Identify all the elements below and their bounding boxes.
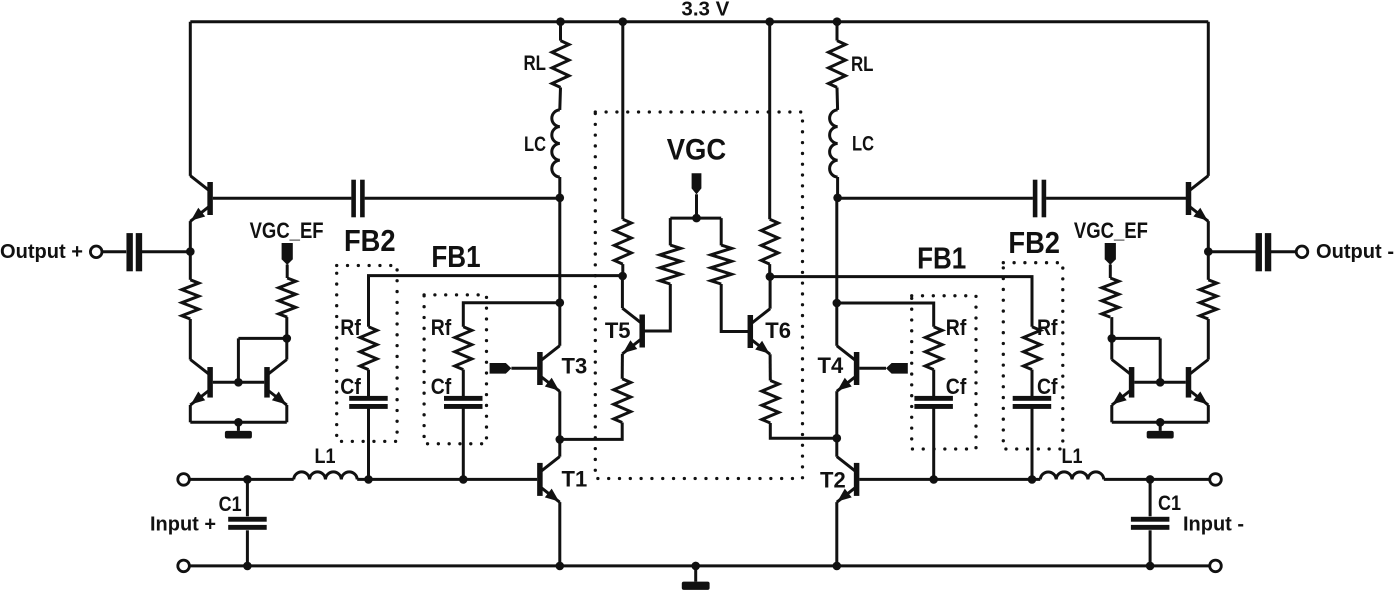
capacitor Cf FB1 left	[444, 396, 483, 409]
svg-text:VGC: VGC	[667, 134, 727, 167]
wire divider left to T5 base	[644, 284, 670, 331]
wire Q10 emitter down	[1207, 221, 1210, 252]
label Cf FB2 right	[1037, 374, 1058, 399]
node rail-RL-right	[833, 17, 842, 26]
resistor Rf FB2 left	[360, 327, 377, 370]
svg-text:VGC_EF: VGC_EF	[250, 218, 324, 243]
resistor Rf FB1 right	[925, 327, 942, 370]
wire VGC_EF pin to resistor	[286, 265, 289, 279]
node output+ junction	[186, 247, 195, 256]
wire Q9 emitter down	[285, 405, 288, 422]
node Q9 collector-base tie	[283, 334, 292, 343]
svg-text:FB2: FB2	[344, 223, 396, 258]
wire rail to T5 branch resistor	[621, 22, 624, 220]
label FB2 left	[344, 223, 396, 258]
resistor VGC divider left	[660, 245, 681, 284]
node C1 top left	[243, 475, 252, 484]
wire T5 emitter resistor to T3 node	[560, 423, 622, 440]
wire node to L1	[247, 478, 293, 481]
wire main column left upper	[558, 198, 561, 303]
inductor LC right	[830, 110, 838, 177]
resistor RL right	[829, 41, 846, 88]
svg-text:FB1: FB1	[431, 239, 480, 274]
wire FB1 feedback line left	[463, 303, 560, 327]
resistor Rf FB1 left	[455, 327, 472, 370]
svg-text:Cf: Cf	[1037, 374, 1058, 399]
node rail-RL-left	[556, 17, 565, 26]
wire T4 emitter down	[835, 391, 838, 438]
wire C1 top lead left	[246, 479, 249, 516]
svg-text:LC: LC	[852, 133, 874, 156]
node Q12 collector-base tie	[1108, 334, 1117, 343]
inductor L1 left	[294, 472, 358, 480]
wire divider left drop	[669, 218, 672, 245]
label T2	[820, 467, 846, 492]
wire Cf FB2 to input line left	[367, 409, 370, 480]
label T4	[818, 353, 844, 378]
svg-text:FB2: FB2	[1008, 225, 1060, 260]
wire Rf to Cf FB2 left	[367, 370, 370, 397]
wire Q11-Q12 base link	[1134, 381, 1186, 384]
node T6 collector / feedback tap	[766, 272, 775, 281]
label VGC_EF left	[250, 218, 324, 243]
node mirror emitter center	[234, 418, 243, 427]
node mirror emitter center right	[1156, 418, 1165, 427]
wire base node to Q9 collector	[238, 337, 286, 340]
svg-text:3.3 V: 3.3 V	[681, 0, 730, 20]
transistor T2 input device right	[837, 457, 860, 503]
svg-text:C1: C1	[219, 493, 242, 516]
svg-text:Rf: Rf	[431, 315, 452, 340]
label Input - right	[1183, 514, 1244, 536]
pin VGC_EF supply pin left	[282, 243, 293, 265]
wire Q11 emitter down	[1207, 405, 1210, 422]
resistor VGC_EF bias right	[1102, 278, 1119, 317]
capacitor C1 right	[1131, 517, 1170, 530]
transistor Q10 output emitter-follower right	[1186, 176, 1209, 222]
wire mirror emitters right	[1112, 421, 1209, 424]
wire resistor to T6 node	[768, 264, 771, 277]
wire resistor to Q9 node	[285, 317, 288, 338]
svg-text:T3: T3	[562, 354, 588, 379]
label Rf FB1 right	[946, 315, 967, 340]
wire LC to node	[558, 177, 561, 198]
wire T2 base to L1 right	[859, 478, 1040, 481]
wire FB2 feedback line left	[369, 276, 623, 327]
resistor T5 collector load	[614, 219, 631, 264]
wire Q7 collector to rail	[189, 22, 192, 176]
wire Output+ terminal to cap	[102, 250, 126, 253]
wire coupling cap to LC node	[365, 197, 560, 200]
label L1 right	[1062, 445, 1083, 468]
node FB2 tap on input line right	[1028, 475, 1037, 484]
svg-text:Output -: Output -	[1316, 241, 1394, 263]
wire Q9 collector	[285, 338, 288, 359]
inductor L1 right	[1040, 472, 1104, 480]
wire Q8 emitter down	[189, 405, 192, 422]
svg-text:LC: LC	[524, 133, 546, 156]
pin VGC control pin	[692, 173, 702, 194]
wire mirror emitters	[190, 421, 286, 424]
svg-text:C1: C1	[1158, 492, 1181, 515]
capacitor coupling cap left (base)	[351, 180, 364, 218]
wire output cap to node	[141, 250, 191, 253]
svg-text:L1: L1	[315, 445, 336, 468]
wire divider right drop	[720, 218, 723, 245]
svg-text:T5: T5	[605, 318, 631, 343]
wire VGC divider bar	[670, 217, 721, 220]
wire resistor to Q12 node	[1110, 317, 1113, 338]
svg-text:Input -: Input -	[1183, 514, 1244, 536]
transistor T4 cascode right	[837, 346, 860, 392]
wire T5 emitter to resistor	[621, 354, 624, 379]
wire output cap to terminal right	[1270, 250, 1296, 253]
wire T4 base	[859, 367, 886, 370]
capacitor Cf FB2 right	[1013, 396, 1051, 409]
label Cf FB1 left	[431, 374, 452, 399]
transistor T5 gain-control left	[622, 308, 645, 354]
resistor VGC_EF bias left	[279, 278, 296, 317]
resistor T6 emitter degeneration	[762, 381, 779, 424]
node T4-T2 junction right	[833, 434, 842, 443]
wire VGC_EF pin to resistor right	[1109, 265, 1112, 279]
label FB2 right	[1008, 225, 1060, 260]
node ground junction	[691, 562, 700, 571]
wire base node up right	[1159, 338, 1162, 382]
resistor output load right	[1200, 280, 1217, 319]
label C1 left	[219, 493, 242, 516]
box VGC dotted control block	[595, 112, 802, 479]
ground main ground	[682, 566, 710, 590]
svg-text:RL: RL	[524, 52, 547, 75]
wire 3.3V supply rail	[190, 20, 1208, 23]
wire output- node to cap	[1208, 250, 1257, 253]
node T1 emitter bottom	[556, 562, 565, 571]
label Rf FB2 right	[1037, 315, 1058, 340]
label VGC_EF right	[1074, 218, 1148, 243]
pin VGC_EF supply pin right	[1105, 243, 1116, 265]
wire L1 to T1 base	[357, 478, 537, 481]
node LC bottom left	[556, 194, 565, 203]
wire node to resistor	[189, 252, 192, 280]
wire rail to RL left	[559, 22, 562, 41]
resistor T6 collector load	[761, 219, 778, 264]
wire LC to node right	[836, 177, 839, 198]
wire RL to LC left	[558, 87, 562, 110]
svg-text:Output +: Output +	[0, 241, 83, 263]
node C1 top right	[1146, 475, 1155, 484]
resistor Rf FB2 right	[1024, 327, 1041, 370]
wire L1 to C1 node right	[1104, 478, 1150, 481]
node C1 bottom left	[243, 562, 252, 571]
svg-text:Rf: Rf	[1037, 315, 1058, 340]
transistor T3 cascode left	[537, 346, 560, 392]
label Output - right	[1316, 241, 1394, 263]
terminal Input + upper port	[178, 474, 190, 486]
node T3 collector / FB1 tap left	[556, 298, 565, 307]
label 3.3 V supply	[681, 0, 730, 20]
node VGC divider top	[692, 214, 701, 223]
node rail-T5-branch	[619, 17, 628, 26]
wire RL to LC right	[836, 87, 840, 110]
wire Q12 collector	[1110, 338, 1113, 359]
wire resistor to Q8 collector	[189, 319, 192, 360]
wire FB2 feedback line right	[770, 277, 1032, 327]
box FB1 dotted right	[912, 296, 976, 449]
node output- junction	[1204, 247, 1213, 256]
node rail-T6-branch	[765, 17, 774, 26]
node T2 emitter bottom	[833, 562, 842, 571]
label FB1 left	[431, 239, 480, 274]
capacitor output coupling cap right	[1256, 233, 1272, 271]
box FB2 dotted right	[1003, 263, 1063, 449]
label Cf FB1 right	[946, 374, 967, 399]
wire T6 emitter resistor to T4 node	[770, 423, 837, 438]
capacitor Cf FB1 right	[914, 396, 953, 409]
ground mirror ground right	[1147, 422, 1174, 438]
node Q11-Q12 base node	[1156, 378, 1165, 387]
wire Cf FB1 to input line left	[462, 409, 465, 480]
label FB1 right	[917, 240, 966, 275]
wire Q10 collector to rail	[1207, 22, 1210, 176]
wire C1 bottom lead left	[246, 530, 249, 566]
capacitor C1 left	[228, 517, 267, 530]
svg-text:T4: T4	[818, 353, 844, 378]
svg-text:Cf: Cf	[431, 374, 452, 399]
wire node to resistor right	[1207, 252, 1210, 280]
transistor Q8 bias mirror left-left	[190, 360, 213, 406]
label RL left	[524, 52, 547, 75]
label T1	[562, 467, 588, 492]
resistor output load left	[182, 280, 199, 319]
terminal Output + port	[90, 246, 102, 258]
svg-text:Rf: Rf	[340, 315, 361, 340]
svg-text:T1: T1	[562, 467, 588, 492]
label T6	[765, 318, 791, 343]
svg-text:L1: L1	[1062, 445, 1083, 468]
wire node to T3 collector	[558, 303, 561, 346]
label LC left	[524, 133, 546, 156]
wire node to T1 collector	[558, 439, 561, 456]
resistor T5 emitter degeneration	[614, 379, 631, 423]
wire Q10 base to coupling cap	[1046, 197, 1186, 200]
svg-text:FB1: FB1	[917, 240, 966, 275]
label Rf FB1 left	[431, 315, 452, 340]
wire rail to T6 branch resistor	[768, 22, 771, 220]
svg-text:Input +: Input +	[150, 514, 216, 536]
svg-text:RL: RL	[851, 53, 874, 76]
wire divider right to T6 base	[721, 284, 748, 332]
box FB1 dotted left	[424, 295, 486, 444]
transistor Q9 bias mirror left-right	[264, 360, 287, 406]
marker T3 base terminal	[490, 363, 512, 374]
wire Rf to Cf FB2 right	[1031, 370, 1034, 397]
wire T2 emitter to ground rail	[835, 502, 838, 566]
transistor T6 gain-control right	[748, 309, 771, 355]
label Rf FB2 left	[340, 315, 361, 340]
wire Cf FB2 to input line right	[1031, 409, 1034, 480]
wire T6 emitter to resistor	[769, 354, 772, 380]
node C1 bottom right	[1146, 562, 1155, 571]
terminal Input + lower port	[178, 560, 190, 572]
label T5	[605, 318, 631, 343]
wire rail to RL right	[836, 22, 839, 41]
wire node to T4 collector	[835, 303, 838, 346]
transistor Q7 output emitter-follower left	[190, 176, 213, 222]
label L1 left	[315, 445, 336, 468]
wire input+ to C1 node	[189, 478, 247, 481]
wire coupling cap to LC node right	[838, 197, 1033, 200]
wire FB1 feedback line right	[837, 303, 934, 327]
wire Rf to Cf FB1 right	[932, 370, 935, 397]
capacitor output coupling cap left	[126, 233, 142, 271]
transistor Q12 bias mirror right-left	[1112, 360, 1135, 406]
label VGC	[667, 134, 727, 167]
svg-text:Rf: Rf	[946, 315, 967, 340]
transistor Q11 bias mirror right-right	[1186, 360, 1209, 406]
node FB2 tap on input line left	[364, 475, 373, 484]
marker T4 base terminal	[886, 363, 908, 374]
label T3	[562, 354, 588, 379]
node Q8-Q9 base node	[234, 378, 243, 387]
terminal Output - port	[1296, 246, 1308, 258]
wire T3 base	[511, 367, 537, 370]
node T3-T1 junction left	[556, 435, 565, 444]
inductor LC left	[552, 110, 560, 177]
transistor T1 input device left	[537, 457, 560, 503]
wire resistor to T5 node	[621, 264, 624, 276]
label Input + left	[150, 514, 216, 536]
wire base node up	[237, 338, 240, 382]
ground mirror ground left	[225, 422, 252, 438]
svg-text:Cf: Cf	[946, 374, 967, 399]
wire resistor to Q11 collector	[1207, 319, 1210, 360]
wire T5 collector drop	[621, 276, 624, 308]
wire Cf FB1 to input line right	[932, 409, 935, 480]
wire Q8-Q9 base link	[213, 381, 264, 384]
svg-text:T6: T6	[765, 318, 791, 343]
wire T6 collector drop	[769, 277, 772, 309]
wire Q7 emitter down	[189, 221, 192, 252]
svg-text:Cf: Cf	[340, 374, 361, 399]
wire node to T2 collector	[835, 438, 838, 457]
wire VGC pin to divider	[695, 194, 698, 218]
node T5 collector / feedback tap	[618, 272, 627, 281]
wire C1 top lead right	[1149, 479, 1152, 516]
svg-text:VGC_EF: VGC_EF	[1074, 218, 1148, 243]
node FB1 tap on input line left	[459, 475, 468, 484]
capacitor Cf FB2 left	[349, 396, 388, 409]
wire node to input- terminal	[1150, 478, 1210, 481]
wire T1 emitter to ground rail	[558, 502, 561, 566]
resistor RL left	[552, 41, 569, 88]
terminal Input - lower port	[1210, 560, 1222, 572]
node T4 collector / FB1 tap right	[833, 299, 842, 308]
label RL right	[851, 53, 874, 76]
wire main column right upper	[835, 198, 838, 303]
wire T3 emitter down	[558, 391, 561, 439]
node LC bottom right	[833, 194, 842, 203]
wire bottom common rail	[189, 564, 1209, 567]
box FB2 dotted left	[337, 266, 397, 442]
capacitor coupling cap right (base)	[1033, 180, 1046, 218]
wire Q7 base to coupling cap	[213, 197, 352, 200]
wire Rf to Cf FB1 left	[462, 370, 465, 397]
label Cf FB2 left	[340, 374, 361, 399]
label Output + left	[0, 241, 83, 263]
wire Q12 emitter down	[1110, 405, 1113, 422]
resistor VGC divider right	[711, 245, 732, 284]
label C1 right	[1158, 492, 1181, 515]
label LC right	[852, 133, 874, 156]
wire base node to Q12 collector	[1112, 337, 1160, 340]
node FB1 tap on input line right	[929, 475, 938, 484]
wire C1 bottom lead right	[1149, 530, 1152, 566]
svg-text:T2: T2	[820, 467, 846, 492]
terminal Input - upper port	[1210, 474, 1222, 486]
